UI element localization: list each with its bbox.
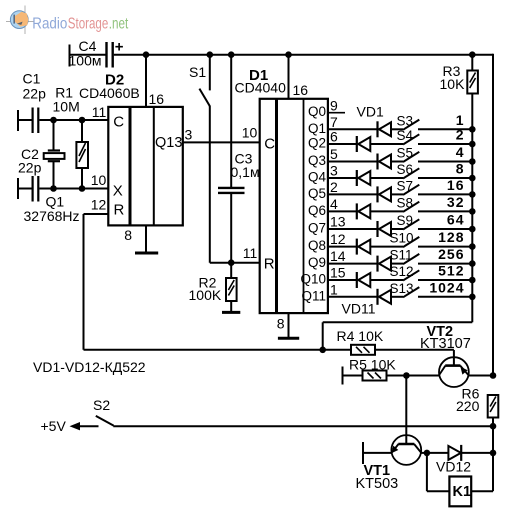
- svg-text:S9: S9: [397, 213, 414, 228]
- transistor VT2 KT3107: [420, 324, 471, 387]
- svg-text:Q1: Q1: [308, 121, 326, 136]
- svg-text:4: 4: [456, 144, 465, 160]
- svg-text:22p: 22p: [23, 86, 47, 102]
- diode VD7: [378, 221, 404, 237]
- junction weight-256 row / summing bus: [469, 260, 476, 267]
- D1 output Q9 pin 14 wire: [308, 248, 378, 270]
- junction D2 pin16 / bus: [143, 51, 150, 58]
- D2 pin 8 wire: [145, 225, 147, 253]
- wire S5 to summing bus, weight 4: [418, 144, 472, 162]
- svg-text:11: 11: [92, 104, 107, 120]
- resistor R1 10M: [53, 85, 89, 189]
- junction S2 wire / right bus below R6: [490, 423, 497, 430]
- wire S6 to summing bus, weight 8: [418, 161, 472, 179]
- svg-text:S7: S7: [397, 178, 414, 193]
- svg-text:.net: .net: [109, 16, 129, 33]
- diode VD5: [378, 186, 404, 202]
- svg-text:8: 8: [456, 161, 465, 177]
- svg-text:15: 15: [330, 265, 346, 281]
- wire VT2 base node down to VT1: [405, 376, 407, 436]
- svg-text:KT3107: KT3107: [420, 336, 471, 352]
- wire S12 to summing bus, weight 512: [418, 263, 472, 281]
- svg-text:S12: S12: [390, 264, 414, 279]
- svg-text:S10: S10: [390, 231, 414, 246]
- diode VD10: [357, 272, 403, 288]
- D2 pin 16 wire to +V bus: [146, 55, 164, 107]
- junction R3 / +V bus: [469, 51, 476, 58]
- svg-text:Q13: Q13: [155, 135, 182, 151]
- junction weight-8 row / summing bus: [469, 175, 476, 182]
- svg-text:2: 2: [456, 127, 465, 143]
- junction weight-128 row / summing bus: [469, 243, 476, 250]
- junction S1 / bus: [207, 51, 214, 58]
- svg-text:Q4: Q4: [308, 170, 327, 185]
- svg-text:Q2: Q2: [308, 136, 326, 151]
- wire S8 to summing bus, weight 32: [418, 194, 472, 212]
- switch S6: [397, 162, 420, 179]
- svg-text:100K: 100K: [189, 287, 222, 303]
- svg-text:S1: S1: [189, 64, 206, 80]
- svg-text:3: 3: [185, 127, 193, 143]
- node B junction dots (C2 / crystal / R1 row): [50, 185, 57, 192]
- svg-text:VD12: VD12: [436, 459, 471, 475]
- svg-text:10: 10: [242, 125, 258, 141]
- svg-text:16: 16: [149, 91, 165, 107]
- IC D1 CD4040 body: [235, 67, 328, 313]
- junction weight-64 row / summing bus: [469, 226, 476, 233]
- junction VD12 cathode / right bus: [490, 450, 497, 457]
- IC D2 CD4060B body: [79, 72, 183, 226]
- svg-text:Q9: Q9: [308, 255, 326, 270]
- resistor R6 220: [456, 386, 498, 427]
- svg-text:K1: K1: [453, 484, 472, 500]
- svg-text:22p: 22p: [18, 160, 42, 176]
- diode VD4: [357, 170, 403, 186]
- svg-text:12: 12: [91, 197, 107, 213]
- svg-text:S8: S8: [397, 195, 414, 210]
- junction weight-16 row / summing bus: [469, 191, 476, 198]
- switch S9: [397, 213, 420, 230]
- D1 output Q6 pin 4 wire: [308, 196, 357, 218]
- svg-text:32: 32: [447, 194, 465, 210]
- svg-text:C: C: [264, 136, 275, 153]
- svg-text:+: +: [115, 39, 124, 56]
- svg-text:10K: 10K: [440, 76, 466, 92]
- svg-text:Storage: Storage: [68, 16, 109, 33]
- D1 output Q7 pin 13 wire: [308, 214, 378, 236]
- D1 output Q8 pin 12 wire: [308, 231, 357, 253]
- D1 output Q1 pin 7 wire: [308, 114, 378, 136]
- resistor R5 10K: [343, 357, 440, 385]
- summing bus (diode ladder common) down to corner: [323, 94, 473, 350]
- switch S13: [390, 281, 420, 298]
- ground for D2 pin 8: [124, 227, 158, 253]
- svg-text:10M: 10M: [53, 99, 80, 115]
- svg-text:CD4040: CD4040: [235, 80, 287, 96]
- junction VT2 collector / right bus: [490, 372, 497, 379]
- svg-text:0,1м: 0,1м: [231, 164, 260, 180]
- svg-text:8: 8: [277, 316, 285, 332]
- feedback wire from D2 pin 12 R to R4 node: [84, 214, 323, 350]
- svg-text:S6: S6: [397, 162, 414, 177]
- transistor VT1 KT503: [356, 435, 422, 492]
- diode VD2: [357, 136, 403, 152]
- junction weight-512 row / summing bus: [469, 277, 476, 284]
- resistor R3 10K: [440, 55, 478, 94]
- wire Q13 output pin 3 to D1 pin 10: [183, 127, 260, 143]
- svg-text:128: 128: [438, 229, 464, 245]
- svg-text:CD4060B: CD4060B: [79, 85, 140, 101]
- diode VD11: [378, 289, 404, 305]
- D1 output Q10 pin 15 wire: [300, 265, 356, 287]
- crystal Q1 32768Hz: [24, 120, 80, 224]
- node A junction dots (C1 / crystal / R1 row): [50, 117, 57, 124]
- capacitor C2 22p: [18, 146, 108, 202]
- wire VT2 collector to right bus: [469, 375, 493, 377]
- junction C3 / R2 / D1 R pin: [228, 259, 235, 266]
- svg-text:VD1-VD12-КД522: VD1-VD12-КД522: [33, 359, 146, 375]
- svg-text:2: 2: [330, 179, 338, 195]
- svg-text:Q5: Q5: [308, 186, 326, 201]
- ground for R2: [222, 311, 240, 314]
- diode VD3: [378, 154, 404, 170]
- open terminal at VT1 emitter: [363, 442, 392, 464]
- svg-text:+5V: +5V: [41, 418, 67, 434]
- switch S7: [397, 178, 420, 195]
- D1 pin 8 wire: [277, 313, 289, 338]
- svg-text:R4 10K: R4 10K: [337, 328, 384, 344]
- wire VT1 right lead to node: [421, 452, 448, 454]
- wire +V bus down to C3: [230, 55, 232, 187]
- svg-text:VD1: VD1: [357, 104, 384, 120]
- svg-text:X: X: [113, 183, 123, 200]
- wire S10 to summing bus, weight 128: [418, 229, 472, 247]
- resistor R4 10K: [323, 328, 454, 355]
- svg-text:C1: C1: [23, 71, 41, 87]
- switch S8: [397, 195, 420, 212]
- svg-text:Q10: Q10: [300, 272, 326, 287]
- D1 output Q11 pin 1 wire: [301, 281, 377, 303]
- junction R4 / summing bus / feedback node: [319, 347, 326, 354]
- svg-text:3: 3: [330, 163, 338, 179]
- wire S11 to summing bus, weight 256: [418, 246, 472, 264]
- svg-text:R5 10K: R5 10K: [349, 357, 396, 373]
- wire right bus R6 to VD12 node: [492, 426, 494, 453]
- switch S10: [390, 231, 420, 248]
- switch S11: [390, 248, 420, 265]
- diode VD1: [378, 121, 404, 137]
- junction weight-2 row / summing bus: [469, 141, 476, 148]
- svg-text:6: 6: [330, 129, 338, 145]
- capacitor C3 0,1м: [218, 151, 260, 263]
- svg-text:KT503: KT503: [356, 476, 399, 492]
- svg-text:1: 1: [330, 281, 338, 297]
- right vertical +V bus: [492, 54, 494, 376]
- switch S2 and +5V feed: [41, 397, 494, 434]
- svg-text:S13: S13: [390, 281, 414, 296]
- diode VD9: [378, 256, 404, 272]
- switch S4: [397, 128, 420, 145]
- svg-text:S2: S2: [93, 397, 110, 413]
- svg-text:9: 9: [330, 97, 338, 113]
- wire top +V bus: [70, 45, 494, 67]
- D1 output Q4 pin 3 wire: [308, 163, 357, 185]
- svg-text:100м: 100м: [69, 53, 102, 69]
- junction weight-1024 row / summing bus: [469, 294, 476, 301]
- site logo RadioStorage.net: [6, 6, 129, 35]
- svg-text:VD11: VD11: [342, 301, 376, 317]
- svg-text:Q11: Q11: [301, 288, 326, 303]
- junction VT1 / VD12 / K1 node: [424, 450, 431, 457]
- svg-text:512: 512: [438, 263, 464, 279]
- svg-text:Q7: Q7: [308, 221, 326, 236]
- relay K1: [427, 453, 493, 506]
- wire S4 to summing bus, weight 2: [418, 127, 472, 145]
- junction weight-4 row / summing bus: [469, 158, 476, 165]
- D1 output Q0 pin 9 stub: [308, 97, 345, 119]
- svg-text:256: 256: [438, 246, 464, 262]
- svg-text:Q3: Q3: [308, 153, 326, 168]
- switch S5: [397, 146, 420, 163]
- junction weight-1 row / summing bus: [469, 126, 476, 133]
- D1 output Q3 pin 5 wire: [308, 146, 378, 168]
- svg-text:10: 10: [91, 172, 107, 188]
- svg-text:64: 64: [447, 212, 465, 228]
- svg-text:220: 220: [456, 398, 480, 414]
- svg-text:5: 5: [330, 146, 338, 162]
- D1 output Q5 pin 2 wire: [308, 179, 378, 201]
- svg-text:Q8: Q8: [308, 238, 326, 253]
- diode VD6: [357, 203, 403, 219]
- capacitor C4 (100м electrolytic): [69, 38, 124, 69]
- svg-text:4: 4: [330, 196, 338, 212]
- D1 output Q2 pin 6 wire: [308, 129, 357, 151]
- switch S12: [390, 264, 420, 281]
- svg-text:1: 1: [456, 112, 465, 128]
- svg-text:32768Hz: 32768Hz: [24, 208, 80, 224]
- switch S3: [397, 113, 420, 130]
- svg-text:16: 16: [293, 82, 309, 98]
- svg-text:S11: S11: [390, 248, 413, 263]
- svg-text:14: 14: [330, 248, 346, 264]
- wire S7 to summing bus, weight 16: [418, 177, 472, 195]
- svg-text:C: C: [113, 114, 124, 131]
- D1 pin 16 wire to +V bus: [289, 55, 309, 99]
- wire S13 to summing bus, weight 1024: [418, 279, 472, 297]
- svg-text:Q0: Q0: [308, 104, 326, 119]
- svg-text:11: 11: [243, 245, 258, 261]
- wire S1 bottom down to D1 R pin row: [210, 106, 260, 263]
- svg-text:Q6: Q6: [308, 203, 326, 218]
- diode VD12: [436, 445, 493, 475]
- svg-text:S3: S3: [397, 113, 414, 128]
- svg-text:R: R: [264, 256, 275, 273]
- svg-text:16: 16: [447, 177, 465, 193]
- wire S3 to summing bus, weight 1: [418, 112, 472, 130]
- svg-text:8: 8: [124, 227, 132, 243]
- wire S9 to summing bus, weight 64: [418, 212, 472, 230]
- switch S1: [189, 55, 210, 107]
- svg-text:1024: 1024: [429, 279, 464, 295]
- resistor R2 100K: [189, 263, 237, 313]
- junction R5 / VT2 base / VT1 collector: [403, 372, 410, 379]
- junction C3 branch / bus: [228, 51, 235, 58]
- svg-text:R: R: [114, 202, 125, 219]
- svg-text:12: 12: [330, 231, 346, 247]
- svg-text:S4: S4: [397, 128, 414, 143]
- svg-text:Radio: Radio: [32, 16, 67, 33]
- svg-text:S5: S5: [397, 146, 414, 161]
- ground for D1 pin 8: [278, 337, 299, 340]
- junction weight-32 row / summing bus: [469, 208, 476, 215]
- diode VD8: [357, 239, 403, 255]
- junction D1 pin16 / bus: [285, 51, 292, 58]
- capacitor C1 22p: [18, 71, 108, 134]
- D2 pin 12 R wire and label: [84, 197, 109, 215]
- svg-text:7: 7: [330, 114, 338, 130]
- svg-text:13: 13: [330, 214, 346, 230]
